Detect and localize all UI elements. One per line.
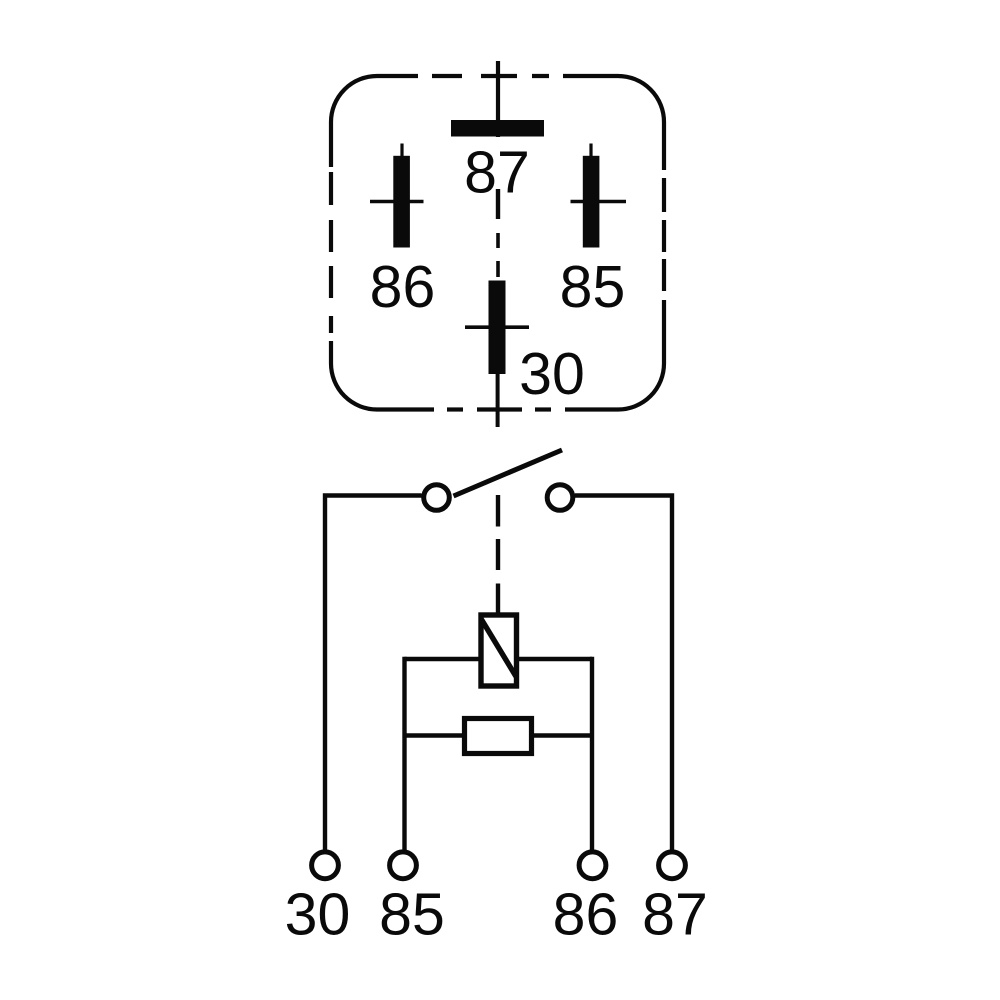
resistor R (parallel with coil) (465, 719, 532, 754)
switch blade (454, 450, 563, 496)
lower rail wires (405, 733, 593, 737)
relay base outline dashes (331, 76, 664, 410)
switch right contact circle (547, 485, 573, 511)
svg-text:85: 85 (379, 882, 445, 948)
wire coil rail to terminal 85 (402, 657, 406, 851)
center dashed line (base view) (496, 233, 500, 277)
svg-text:86: 86 (553, 882, 619, 948)
switch left contact circle (424, 485, 450, 511)
svg-text:87: 87 (464, 140, 530, 206)
svg-text:87: 87 (642, 882, 708, 948)
pin 85 terminal (right vertical blade) (571, 144, 627, 248)
svg-text:30: 30 (285, 882, 351, 948)
terminal 86 circle (579, 852, 606, 879)
relay base outline (dashed rounded box), solid corners (331, 76, 664, 410)
svg-text:30: 30 (519, 341, 585, 407)
pin 86 terminal (left vertical blade) (370, 144, 424, 248)
relay coil (rect with diagonal) (481, 615, 517, 686)
svg-text:86: 86 (370, 254, 436, 320)
pin 87 terminal (top, horizontal blade) (451, 61, 544, 219)
terminal 87 circle (659, 852, 686, 879)
terminal 30 circle (312, 852, 339, 879)
upper rail wires (405, 657, 593, 661)
terminal 85 circle (390, 852, 417, 879)
wire switch right contact to terminal 87 (575, 496, 672, 852)
actuation dashed link (496, 495, 500, 613)
svg-text:85: 85 (560, 254, 626, 320)
pin 30 terminal (center vertical blade) (465, 281, 529, 428)
wire terminal 30 to switch left contact (325, 496, 422, 852)
wire coil rail to terminal 86 (590, 657, 594, 851)
